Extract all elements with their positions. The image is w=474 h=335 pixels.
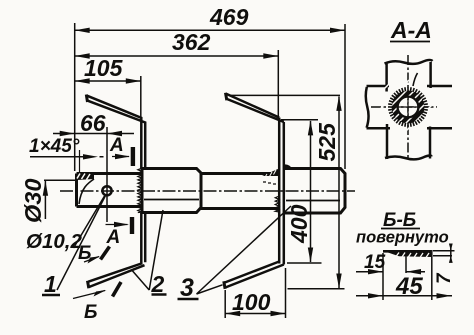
leader label 2 to hub: [132, 210, 164, 290]
dimension 400 extension bottom: [287, 262, 322, 264]
blade right-bottom: [225, 262, 284, 288]
svg-text:525: 525: [314, 122, 340, 162]
blade right-top end cap: [226, 93, 227, 101]
weld blob right of plate top: [284, 164, 293, 169]
leader label 3 to blades: [197, 206, 292, 294]
leader hole to label 1: [57, 196, 106, 291]
extension line x278.3 (362 right): [277, 50, 279, 117]
section A-A cut marker bottom: [106, 224, 128, 226]
dimension 15: [356, 271, 425, 273]
leader hole to F10,2: [74, 196, 105, 248]
section A-A view: left plate: [366, 86, 390, 128]
svg-text:66: 66: [80, 110, 106, 136]
section A-A centerlines: [407, 55, 409, 160]
blade left-bottom: [88, 213, 145, 287]
chamfer edge line left end: [79, 150, 81, 173]
right sleeve end face: [344, 174, 347, 208]
blade left-top: [87, 96, 145, 169]
svg-text:А: А: [106, 227, 121, 248]
hub tube 1: [142, 169, 201, 213]
blade left-bottom end cap: [88, 281, 89, 289]
svg-text:100: 100: [232, 289, 271, 315]
centerline shaft axis: [60, 190, 355, 192]
svg-text:7: 7: [434, 272, 455, 284]
blade left-top end cap: [86, 95, 87, 103]
dimension 525 extension bottom: [288, 288, 345, 290]
hole d10.2: [102, 186, 111, 195]
chamfer ellipse arc: [79, 179, 94, 204]
svg-text:А-А: А-А: [390, 17, 432, 43]
chamfer hatched sliver: [77, 174, 94, 181]
svg-text:469: 469: [209, 4, 249, 30]
svg-text:повернуто: повернуто: [356, 229, 449, 247]
blade right-top: [226, 94, 283, 122]
blade right-bottom end cap: [224, 281, 225, 289]
7 dimension line: [450, 246, 452, 260]
dimension 362: [75, 55, 279, 57]
right sleeve (tube to shaft end): [284, 169, 345, 214]
svg-text:362: 362: [172, 29, 211, 55]
section A-A view: lower plate: [385, 124, 432, 159]
bore crosshair: [398, 97, 419, 118]
dimension 100 extensions: [225, 268, 285, 318]
shaft left section: [77, 174, 143, 207]
dimension 525 line: [338, 97, 340, 289]
dimension 469: [75, 29, 345, 31]
svg-text:1×45°: 1×45°: [29, 136, 80, 157]
section A-A view: upper plate: [385, 60, 433, 92]
dimension 45: [356, 295, 452, 297]
blade plate right assembly (vertical, edge view): [279, 118, 284, 265]
shaft middle section: [201, 174, 279, 209]
dimension 105: [75, 80, 141, 82]
svg-text:А: А: [109, 135, 124, 156]
svg-text:Б: Б: [78, 243, 91, 264]
svg-text:2: 2: [151, 271, 165, 297]
svg-text:Ø30: Ø30: [20, 179, 46, 223]
extension line x140.8 (105 right): [140, 76, 142, 117]
dimension 1x45 leader: [30, 156, 104, 158]
section A-A view: right plate: [427, 86, 452, 128]
dimension 66 (outside arrows): [53, 133, 134, 135]
dimension 400 line: [310, 121, 312, 262]
weld ticks around ring: [388, 87, 428, 127]
weld dashes under triangle: [263, 182, 276, 184]
section A-A cut marker top: [112, 156, 129, 158]
dimension 400 extension top: [281, 119, 318, 121]
section B cut marker upper: [84, 257, 99, 263]
weld triangle left of plate: [262, 169, 279, 177]
extension line x107 hole: [106, 127, 108, 222]
flick mark: [413, 73, 418, 86]
B-B extension lines: [383, 250, 432, 300]
svg-text:15: 15: [364, 252, 386, 273]
sleeve bore line: [286, 200, 340, 202]
bore circle: [398, 97, 419, 118]
section B cut marker lower: [73, 291, 105, 299]
dimension 100 line: [225, 313, 285, 315]
svg-text:Б: Б: [84, 302, 97, 323]
svg-text:Ø10,2: Ø10,2: [26, 230, 82, 253]
shaft ring hatched (pipe wall): [395, 94, 422, 121]
hub1 bore line: [144, 199, 199, 201]
B-B knife section top edge: [383, 250, 431, 253]
svg-text:45: 45: [395, 273, 423, 300]
extension line right end x345: [344, 24, 346, 169]
dimension F30 leader: [44, 180, 76, 219]
extension line left end x74.7: [74, 23, 76, 171]
weld seam hub1 left edge: [138, 168, 142, 213]
svg-text:105: 105: [84, 55, 124, 81]
weld seam below left of plate: [275, 196, 279, 212]
dimension 525 extension top: [229, 94, 340, 96]
7 thickness extension lines: [433, 251, 455, 256]
svg-text:1: 1: [44, 271, 57, 297]
svg-text:400: 400: [286, 204, 312, 244]
B-B knife body hatched: [388, 253, 431, 258]
